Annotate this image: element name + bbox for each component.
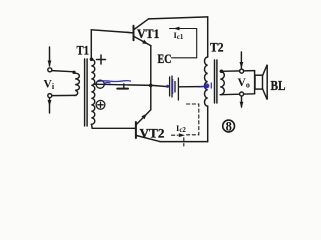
wire T2 secondary bottom	[220, 93, 254, 96]
figure number circled 8	[223, 120, 235, 134]
transformer T2 secondary	[220, 71, 224, 94]
battery EC	[170, 76, 179, 100]
blue streak above middle wire	[97, 81, 132, 82]
input source arrow bottom	[48, 98, 52, 113]
circled minus node	[96, 80, 104, 88]
common reference symbol	[117, 84, 128, 89]
current loop Ic2 dashed	[172, 104, 199, 146]
node dot T2 secondary top	[220, 70, 224, 74]
node dot secondary top	[90, 58, 94, 62]
output terminal bottom	[240, 92, 244, 96]
blue tinge battery plate	[172, 79, 174, 94]
svg-text:T2: T2	[210, 39, 224, 54]
transistor VT2	[136, 110, 160, 142]
wire collector VT1 top	[149, 17, 208, 19]
input terminal bottom	[48, 94, 52, 98]
input terminal top	[48, 68, 52, 72]
svg-text:8: 8	[226, 120, 232, 134]
transformer T1 primary	[75, 73, 79, 95]
transformer T2 core	[215, 60, 217, 103]
wire VT1 base	[125, 31, 133, 34]
speaker BL	[255, 65, 267, 100]
svg-text:BL: BL	[271, 79, 286, 94]
output arrow top	[240, 52, 244, 69]
wire input bottom	[52, 94, 76, 96]
node dot primary top	[72, 71, 75, 74]
wire output right vertical	[254, 71, 256, 94]
blue tick on T2 center	[210, 83, 212, 89]
wire battery to T2 tap	[179, 86, 208, 88]
transformer T1 core	[85, 59, 88, 126]
wire input top	[52, 71, 75, 72]
wire emitters vertical	[150, 46, 152, 110]
plus polarity top	[97, 55, 106, 64]
transformer T1 secondary	[91, 59, 95, 124]
wire center tap middle	[94, 84, 168, 86]
transistor VT1	[134, 19, 152, 46]
current loop Ic1	[170, 27, 197, 58]
circled plus node	[96, 100, 105, 109]
wire T1 secondary top lead	[91, 30, 133, 59]
node dot emitter junction	[149, 84, 153, 88]
wire top right lead down to T2	[207, 17, 209, 57]
input source arrow top	[48, 47, 52, 67]
svg-text:T1: T1	[77, 43, 90, 58]
wire bottom right lead up to T2	[207, 106, 209, 142]
svg-text:VT2: VT2	[140, 127, 165, 141]
svg-text:VT1: VT1	[137, 27, 160, 41]
current Ic2 arrowhead	[179, 133, 185, 137]
output arrow bottom	[240, 97, 244, 109]
wire T1 secondary bottom lead	[92, 124, 136, 128]
blue dot battery left	[166, 85, 169, 88]
blue scribble at minus node	[105, 82, 111, 83]
transformer T2 primary	[205, 57, 208, 106]
output terminal top	[240, 69, 244, 73]
wire T2 secondary top	[220, 70, 254, 73]
svg-text:EC: EC	[158, 51, 172, 66]
blue mark near T2 tap	[204, 83, 209, 88]
blue ink marks	[97, 79, 212, 94]
wire collector VT2 bottom	[160, 141, 208, 143]
